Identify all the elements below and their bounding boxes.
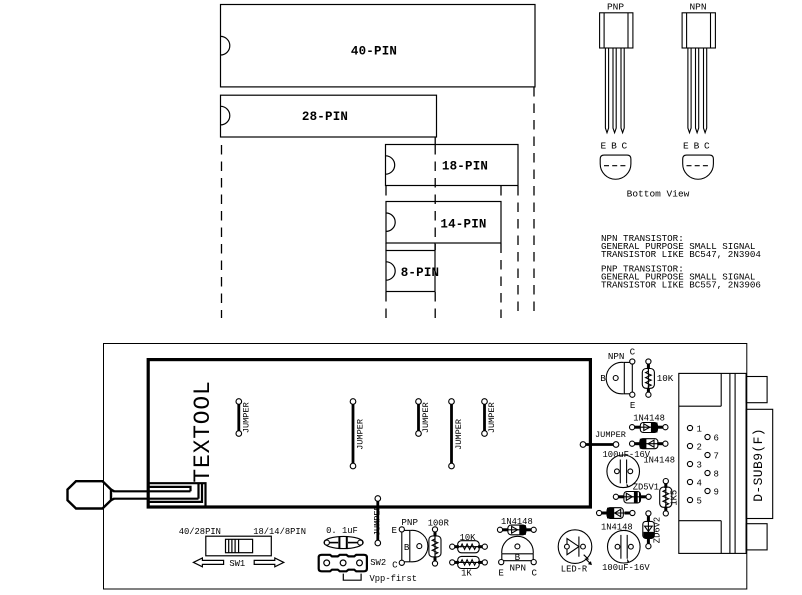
svg-text:0. 1uF: 0. 1uF	[326, 526, 358, 536]
socket outline 8-PIN	[386, 243, 435, 292]
svg-text:18/14/8PIN: 18/14/8PIN	[253, 527, 306, 537]
svg-text:C: C	[621, 141, 627, 152]
guide line 14-pin right upper	[500, 186, 502, 202]
svg-text:TRANSISTOR LIKE BC547, 2N3904: TRANSISTOR LIKE BC547, 2N3904	[601, 249, 761, 260]
svg-text:8: 8	[714, 470, 719, 480]
switch SW1	[193, 536, 283, 569]
svg-text:NPN: NPN	[608, 351, 625, 362]
resistor R2 1K5	[660, 479, 680, 517]
socket outline 28-PIN	[221, 95, 437, 137]
svg-text:100uF-16V: 100uF-16V	[602, 563, 650, 573]
svg-text:SW2: SW2	[370, 558, 386, 568]
svg-text:NPN: NPN	[510, 563, 527, 574]
svg-text:E: E	[630, 400, 636, 411]
resistor R1 10K (top right)	[642, 359, 673, 397]
zener diode ZD6V2	[643, 511, 663, 549]
svg-text:C: C	[392, 560, 398, 571]
transistor Q3 NPN (bottom)	[498, 536, 537, 578]
ZIF lever handle	[68, 481, 115, 508]
svg-text:B: B	[515, 552, 521, 563]
diode D2 1N4148	[630, 439, 676, 466]
svg-text:E: E	[600, 141, 606, 152]
svg-text:D-SUB9(F): D-SUB9(F)	[751, 428, 766, 502]
svg-text:E: E	[498, 567, 504, 578]
transistor Q2 PNP (bottom)	[392, 517, 428, 571]
svg-text:ZD5V1: ZD5V1	[633, 482, 659, 492]
resistor R3 100R	[428, 518, 450, 566]
svg-text:B: B	[404, 542, 410, 553]
guide line pin1 column	[221, 145, 223, 318]
svg-text:100R: 100R	[428, 518, 450, 528]
svg-text:14-PIN: 14-PIN	[440, 218, 486, 232]
transistor package NPN (top view drawing)	[682, 2, 715, 180]
svg-text:B: B	[694, 141, 700, 152]
svg-text:28-PIN: 28-PIN	[302, 110, 348, 124]
note PNP transistor description	[601, 264, 761, 291]
transistor Q1 NPN (top right)	[600, 347, 636, 411]
D-SUB pin 6	[705, 434, 719, 444]
svg-text:10K: 10K	[460, 533, 477, 543]
D-SUB pin 9	[705, 488, 719, 498]
svg-text:10K: 10K	[657, 373, 674, 384]
svg-text:B: B	[600, 373, 606, 384]
ZIF socket U1 TEXTOOL	[148, 360, 590, 507]
D-SUB pin 2	[687, 443, 702, 453]
svg-text:1K5: 1K5	[670, 490, 680, 506]
board outline	[104, 344, 747, 590]
guide line 18-pin right	[517, 186, 519, 318]
svg-text:C: C	[630, 347, 636, 358]
guide line 18/14/8-pin left upper	[385, 186, 387, 202]
PNP bottom view	[600, 155, 631, 179]
note NPN transistor description	[601, 233, 761, 260]
svg-text:1N4148: 1N4148	[633, 413, 665, 423]
switch SW2	[319, 555, 386, 572]
svg-text:E: E	[683, 141, 689, 152]
svg-text:5: 5	[697, 497, 702, 507]
svg-text:C: C	[532, 567, 538, 578]
svg-text:6: 6	[714, 434, 719, 444]
socket outline 18-PIN	[386, 145, 519, 186]
svg-text:NPN: NPN	[689, 2, 706, 13]
socket outline 40-PIN	[221, 5, 536, 87]
resistor R4 10K (bottom)	[450, 533, 488, 553]
svg-text:JUMPER: JUMPER	[373, 505, 383, 536]
svg-text:C: C	[704, 141, 710, 152]
svg-text:3: 3	[697, 461, 702, 471]
SW2 selection bracket	[343, 574, 361, 581]
zener diode ZD5V1	[613, 482, 659, 503]
svg-text:100uF-16V: 100uF-16V	[603, 450, 651, 460]
D-SUB pin 3	[687, 461, 702, 471]
svg-text:E: E	[392, 525, 398, 536]
jumper J1	[236, 399, 252, 437]
svg-text:1K: 1K	[461, 568, 472, 578]
NPN bottom view	[683, 155, 714, 179]
ZIF lever arm	[114, 491, 199, 498]
jumper J6 horizontal	[580, 430, 626, 448]
svg-text:40/28PIN: 40/28PIN	[179, 527, 221, 537]
svg-text:1: 1	[697, 425, 702, 435]
guide line 14-pin right lower	[500, 244, 502, 319]
svg-text:PNP: PNP	[607, 2, 624, 13]
svg-text:JUMPER: JUMPER	[242, 402, 252, 433]
svg-text:2: 2	[697, 443, 702, 453]
jumper J3	[416, 399, 432, 437]
resistor R5 1K	[450, 556, 488, 578]
LED LED-R	[558, 530, 592, 575]
svg-text:7: 7	[714, 452, 719, 462]
diode D4 1N4148 (bottom)	[497, 517, 536, 535]
jumper J4	[449, 399, 465, 469]
D-SUB pin 1	[687, 425, 702, 435]
diode D3 1N4148	[597, 508, 636, 533]
wire connector 28-18 pin	[434, 137, 436, 145]
transistor package PNP (top view drawing)	[600, 2, 633, 180]
capacitor C3 0.1uF	[324, 536, 363, 548]
svg-text:SW1: SW1	[229, 559, 245, 569]
svg-text:JUMPER: JUMPER	[356, 419, 366, 450]
svg-text:PNP: PNP	[401, 517, 418, 528]
guide line 8-pin right lower	[434, 292, 436, 318]
diode D1 1N4148	[630, 413, 669, 432]
svg-text:JUMPER: JUMPER	[487, 402, 497, 433]
svg-text:TRANSISTOR LIKE BC557, 2N3906: TRANSISTOR LIKE BC557, 2N3906	[601, 279, 761, 290]
ZIF lever bracket	[148, 483, 205, 505]
svg-text:9: 9	[714, 488, 719, 498]
svg-text:B: B	[611, 141, 617, 152]
guide line 40-pin right	[533, 87, 535, 318]
guide line 18/14/8-pin left lower	[385, 292, 387, 318]
D-SUB pin 7	[705, 452, 719, 462]
svg-text:JUMPER: JUMPER	[421, 402, 431, 433]
D-SUB pin 4	[687, 479, 702, 489]
svg-text:JUMPER: JUMPER	[595, 430, 626, 440]
guide line 8-pin right upper	[434, 145, 436, 250]
jumper J5	[482, 399, 498, 437]
svg-text:TEXTOOL: TEXTOOL	[190, 380, 216, 482]
D-SUB pin 5	[687, 497, 702, 507]
svg-text:4: 4	[697, 479, 702, 489]
capacitor C1 100uF-16V	[603, 450, 651, 488]
connector CN1 D-SUB9(F)	[679, 373, 773, 553]
svg-text:Bottom View: Bottom View	[627, 189, 690, 200]
jumper J2	[350, 399, 366, 469]
socket outline 14-PIN	[386, 202, 501, 244]
svg-text:JUMPER: JUMPER	[454, 419, 464, 450]
D-SUB pin 8	[705, 470, 719, 480]
svg-text:8-PIN: 8-PIN	[401, 266, 440, 280]
svg-text:Vpp-first: Vpp-first	[370, 574, 418, 584]
capacitor C2 100uF-16V	[602, 530, 650, 573]
svg-text:40-PIN: 40-PIN	[351, 45, 397, 59]
svg-text:ZD6V2: ZD6V2	[653, 517, 663, 543]
jumper J7 vertical at socket bottom	[373, 496, 383, 546]
svg-text:18-PIN: 18-PIN	[442, 160, 488, 174]
svg-text:LED-R: LED-R	[561, 565, 588, 575]
